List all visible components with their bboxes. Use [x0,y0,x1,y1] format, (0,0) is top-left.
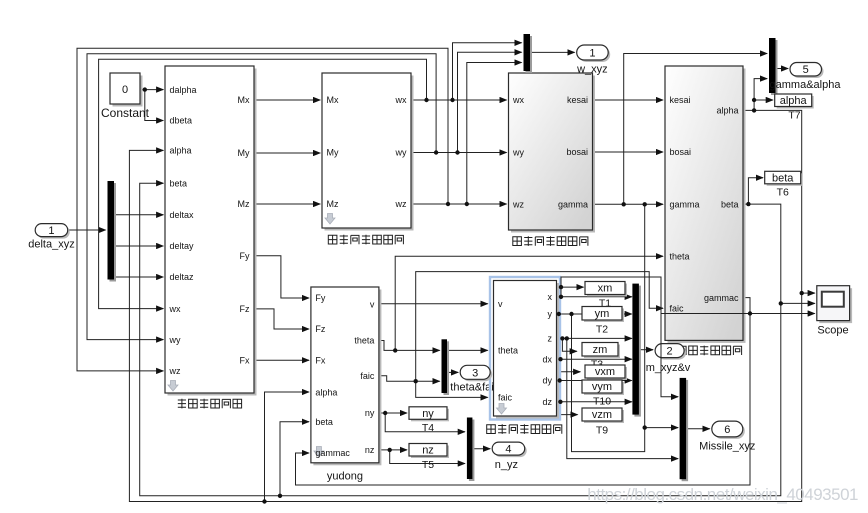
svg-text:Missile_xyz: Missile_xyz [699,441,755,453]
subsystem 姿态动力学模型 [322,73,414,231]
svg-text:vzm: vzm [592,409,612,421]
wire wx to w_xyz mux [453,43,522,100]
wire w_xyz mux to outport 1 [530,51,575,53]
svg-text:nz: nz [365,445,375,455]
wire missile mux to outport 6 [686,428,710,430]
svg-text:https://blog.csdn.net/weixin_4: https://blog.csdn.net/weixin_40493501 [587,485,858,504]
wire wz to w_xyz mux [467,63,522,205]
outport 5 oval gamma-alpha [770,63,842,92]
wire beta to display T6 [748,178,763,204]
wire dz to vzm display [560,402,577,415]
wire x to xm display [561,287,584,297]
svg-text:beta: beta [772,172,794,184]
wire z branch down to missile mux in3 [567,338,678,458]
svg-text:alpha: alpha [170,146,192,156]
subsystem 力和力矩模型 [165,66,257,396]
svg-text:w_xyz: w_xyz [576,64,608,76]
wire faic branch up to geometry block [416,272,663,382]
svg-text:T5: T5 [422,459,434,471]
wire n_yz mux to outport 4 [473,448,491,450]
wire kesai [593,99,664,101]
wire wy to kinematics [411,152,507,154]
label 姿态运动学模型 [513,236,588,246]
svg-text:alpha: alpha [780,95,808,107]
svg-text:1: 1 [48,225,54,237]
svg-text:wy: wy [395,148,407,158]
mux bar missile [680,378,689,481]
svg-text:6: 6 [724,424,730,436]
svg-text:v: v [370,299,375,309]
svg-text:theta&fai: theta&fai [450,382,493,394]
wire theta-faic mux to outport 3 [447,371,458,373]
wire theta branch up to geometry block [395,256,663,350]
display T4 ny [409,407,449,434]
wire beta feedback main [140,183,781,496]
outport 6 oval missile_xyz [699,421,755,452]
svg-text:T7: T7 [788,110,800,122]
constant block Constant [101,73,150,120]
display T2 ym [582,307,624,336]
wire demux to deltax [114,214,163,216]
label 姿态动力学模型 [328,235,403,245]
svg-text:xm: xm [598,283,613,295]
subsystem 质心运动学模型 selected [490,277,560,420]
svg-text:theta: theta [670,251,690,261]
label 质心运动学模型 [487,424,562,434]
wire gamma [593,203,664,205]
svg-text:T10: T10 [593,396,611,408]
svg-text:theta: theta [498,346,518,356]
svg-text:Fy: Fy [315,293,325,303]
svg-text:gamma: gamma [670,200,700,210]
svg-text:ny: ny [422,408,434,420]
display vxm [585,365,627,380]
wire m_xyz mux to outport 2 [639,349,653,351]
wire alpha to scope in1 [802,292,815,294]
svg-text:4: 4 [505,444,511,456]
svg-text:dalpha: dalpha [170,85,197,95]
wire dy row to m_xyz mux [557,380,632,382]
wire constant to dalpha [68,43,815,502]
wire alpha to display T7 [754,100,773,110]
wire ny to n_yz mux [385,413,465,432]
svg-text:Fz: Fz [240,304,250,314]
svg-text:Scope: Scope [817,325,848,337]
svg-text:y: y [548,309,553,319]
svg-text:2: 2 [667,346,673,358]
svg-text:x: x [548,292,553,302]
svg-text:Fz: Fz [315,324,325,334]
svg-text:wx: wx [169,304,181,314]
wire My [254,152,320,154]
wire dx row to m_xyz mux [557,358,632,360]
wire nz to n_yz mux [390,450,465,464]
wire faic down to centroid block [416,381,488,397]
wire x row to m_xyz mux [557,296,632,298]
svg-text:Fy: Fy [240,251,250,261]
svg-text:zm: zm [593,344,608,356]
wire v [379,303,488,305]
svg-text:faic: faic [498,393,513,403]
demux bar for delta_xyz [108,181,117,282]
wire x branch over blocks to scope in3 and missile mux in1 [561,277,815,397]
svg-text:kesai: kesai [670,95,691,105]
display T1 xm [585,282,627,310]
wire theta to centroid block [447,349,488,351]
wire bosai [593,151,664,153]
svg-text:Mz: Mz [327,199,339,209]
svg-text:beta: beta [315,417,333,427]
svg-text:bosai: bosai [670,147,692,157]
display T9 vzm [582,408,624,437]
wire alpha bottom branch to yudong [265,392,310,502]
svg-text:dx: dx [542,354,552,364]
svg-text:wy: wy [169,335,181,345]
svg-text:wx: wx [395,95,407,105]
svg-text:bosai: bosai [566,147,588,157]
wire nz to display [379,449,407,451]
label 几何关系模型 [678,346,742,356]
svg-text:deltaz: deltaz [170,272,195,282]
svg-text:My: My [327,148,339,158]
wire y branch down to missile mux in2 [572,314,645,452]
svg-text:faic: faic [360,371,375,381]
svg-text:ym: ym [595,308,610,320]
wire theta out jog [379,341,440,351]
svg-text:wx: wx [512,95,524,105]
svg-text:alpha: alpha [716,106,738,116]
svg-text:T6: T6 [777,187,789,199]
outport 4 oval n_yz [492,442,527,471]
wire Mz [254,203,320,205]
svg-text:theta: theta [354,336,374,346]
wire dx to vxm display [561,359,581,372]
inport 1 oval delta_xyz [28,224,74,251]
outport 2 oval m_xyz&v [646,344,691,374]
svg-text:deltax: deltax [170,210,195,220]
svg-text:wy: wy [512,148,524,158]
wire gammac feedback [296,298,751,485]
svg-text:My: My [238,148,250,158]
wire y row to m_xyz mux [557,313,632,315]
mux bar gamma-alpha [769,38,778,95]
svg-text:dbeta: dbeta [170,116,193,126]
svg-text:dy: dy [542,376,552,386]
svg-text:z: z [548,334,553,344]
scope block [817,286,852,337]
svg-text:gammac: gammac [704,293,739,303]
svg-text:5: 5 [803,64,809,76]
svg-text:wz: wz [395,199,407,209]
wire wx feedback loop [99,59,427,308]
display T7 alpha [775,94,814,122]
svg-text:0: 0 [122,84,128,96]
wire demux to deltaz [114,276,163,278]
svg-text:T9: T9 [596,425,608,437]
wire demux to deltay [114,245,163,247]
subsystem 几何关系模型 [665,66,746,343]
svg-text:m_xyz&v: m_xyz&v [646,362,691,374]
svg-text:ny: ny [365,408,375,418]
mux bar w_xyz [524,34,533,73]
svg-text:Mz: Mz [238,199,250,209]
wire ny to display [379,412,407,414]
mux bar theta-faic [442,339,450,395]
svg-text:nz: nz [422,445,434,457]
svg-text:dz: dz [542,397,552,407]
wire wz feedback loop [77,48,448,371]
svg-text:3: 3 [472,367,478,379]
svg-text:gamma&alpha: gamma&alpha [770,79,842,91]
wire gamma up to port5 mux [624,54,767,205]
svg-text:Fx: Fx [240,356,250,366]
label 力和力矩模型 [178,399,242,409]
wire wy feedback loop [87,54,436,340]
display T6 beta [765,171,803,198]
svg-text:kesai: kesai [567,95,588,105]
svg-text:beta: beta [721,199,739,209]
wire faic out jog [379,376,440,382]
svg-text:wz: wz [169,366,181,376]
svg-text:gamma: gamma [558,200,588,210]
wire dz row to m_xyz mux [557,401,632,403]
svg-text:alpha: alpha [315,387,337,397]
svg-text:v: v [498,299,503,309]
display T3 zm [582,343,620,371]
subsystem 姿态运动学模型 [509,73,596,233]
mux bar n_yz [467,418,475,482]
wire beta to scope in2 [781,302,815,304]
svg-text:delta_xyz: delta_xyz [28,239,74,251]
svg-text:gammac: gammac [315,448,350,458]
wire wz to kinematics [411,203,507,205]
wire port5 mux to outport 5 [776,68,789,70]
wire wx to kinematics [411,99,507,101]
svg-text:vym: vym [592,381,612,393]
svg-text:1: 1 [589,48,595,60]
outport 1 oval w_xyz [576,45,610,76]
wire port1 to demux [68,229,106,231]
outport 3 oval theta&fai [460,365,492,381]
wire Mx [254,99,320,101]
wire alpha to port5 mux in2 [754,79,767,100]
svg-text:Mx: Mx [327,95,339,105]
svg-text:Fx: Fx [315,356,325,366]
mux bar m_xyz&v [632,284,641,417]
wire z row to m_xyz mux [557,337,632,339]
wire wy to w_xyz mux [458,52,522,152]
subsystem yudong [311,287,382,483]
svg-text:yudong: yudong [327,471,363,483]
wire alpha feedback main [129,110,801,501]
wire Fz [254,309,309,329]
svg-text:wz: wz [512,200,524,210]
svg-text:beta: beta [170,178,188,188]
wire gamma down to missile mux in2 [645,204,678,427]
display T5 nz [409,444,449,471]
wire Fy [254,256,309,298]
wire z to zm display [562,338,576,351]
svg-text:vxm: vxm [595,366,615,378]
svg-text:faic: faic [670,303,685,313]
svg-text:T2: T2 [596,324,608,336]
svg-text:Constant: Constant [101,106,150,120]
wire beta bottom branch to yudong [280,422,309,496]
svg-text:T4: T4 [422,422,434,434]
svg-text:Mx: Mx [238,95,250,105]
wire Fx [254,359,309,361]
svg-text:n_yz: n_yz [495,459,518,471]
svg-text:deltay: deltay [170,241,195,251]
display T10 vym [582,380,624,408]
